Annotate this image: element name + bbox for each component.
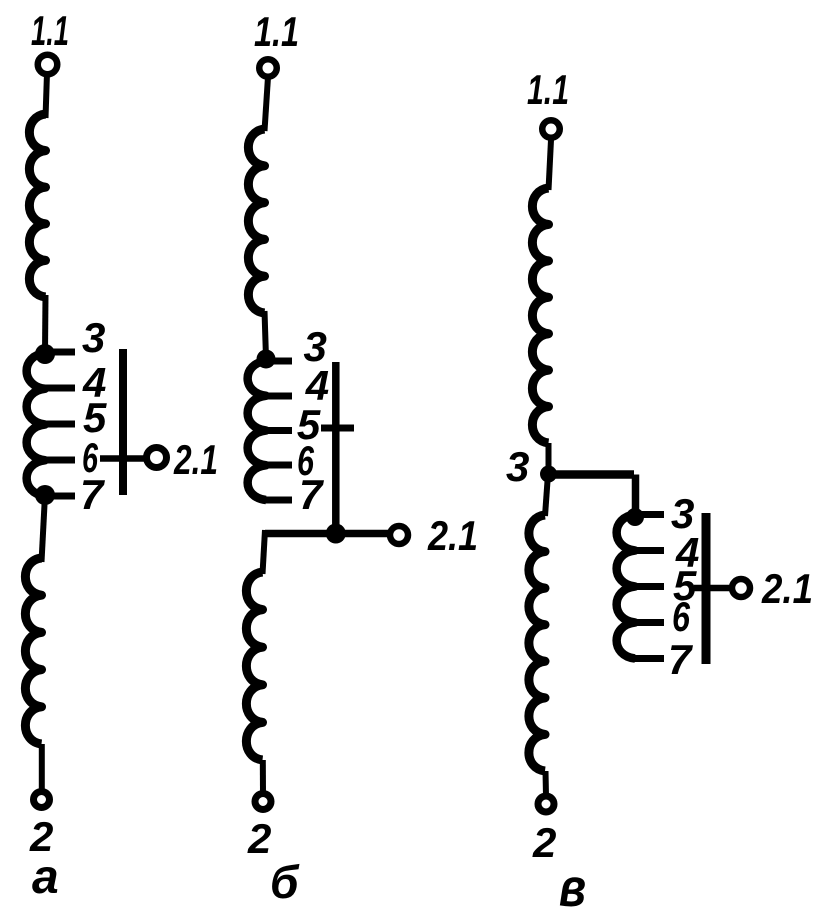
svg-text:б: б [270, 856, 300, 908]
svg-text:2.1: 2.1 [761, 565, 813, 612]
svg-text:1.1: 1.1 [254, 8, 299, 55]
svg-text:7: 7 [80, 471, 105, 518]
svg-text:7: 7 [668, 636, 693, 683]
svg-text:7: 7 [299, 471, 324, 518]
svg-text:2: 2 [532, 819, 556, 866]
svg-text:3: 3 [506, 443, 529, 490]
svg-text:2.1: 2.1 [427, 512, 478, 559]
svg-text:1.1: 1.1 [527, 66, 569, 113]
svg-text:1.1: 1.1 [31, 7, 69, 54]
svg-text:6: 6 [672, 593, 690, 640]
svg-text:2: 2 [247, 815, 271, 862]
svg-text:3: 3 [82, 314, 105, 361]
svg-text:2.1: 2.1 [173, 436, 218, 483]
svg-text:а: а [32, 851, 59, 904]
svg-text:в: в [559, 858, 586, 913]
